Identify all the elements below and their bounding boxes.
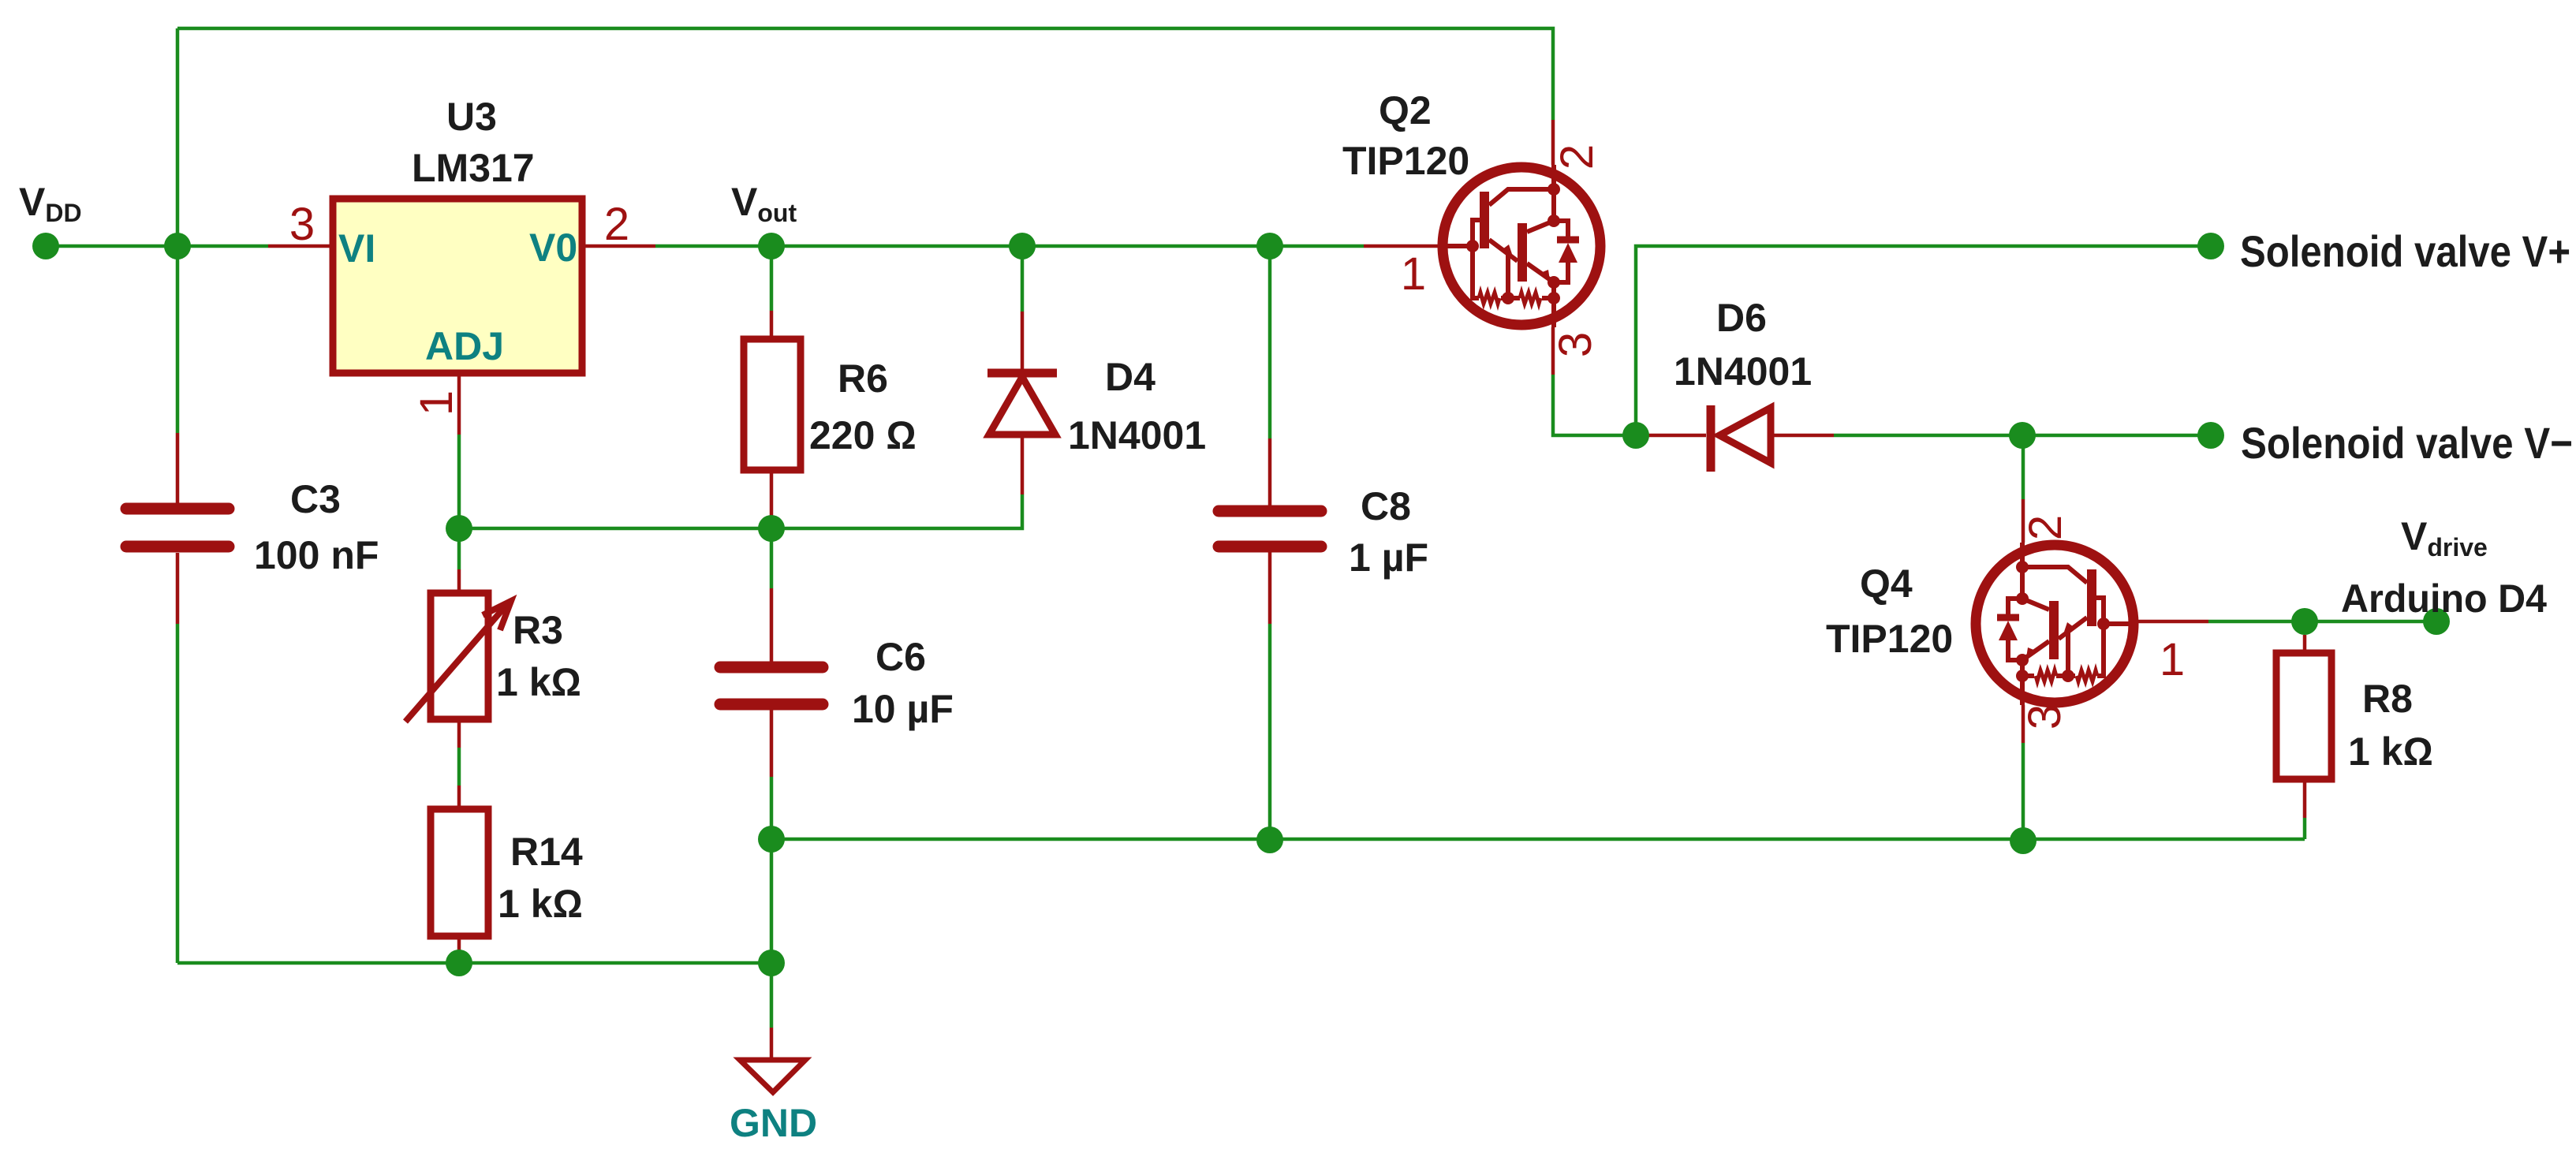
wire node to C6 bbox=[770, 541, 774, 588]
wire ADJ down bbox=[457, 435, 461, 528]
pin R14 top bbox=[457, 785, 461, 809]
wire C6 to ground bus bbox=[770, 777, 774, 1028]
ground symbol GND bbox=[740, 1060, 805, 1092]
wire node to C8 bbox=[1268, 246, 1272, 438]
resistor R14 bbox=[431, 809, 488, 936]
node VDD terminal bbox=[32, 233, 59, 259]
svg-text:1: 1 bbox=[411, 390, 462, 416]
pin Q2 emitter bbox=[1551, 327, 1555, 375]
wire top rail VDD to Q2 collector bbox=[177, 28, 1553, 120]
svg-text:D4: D4 bbox=[1105, 355, 1155, 399]
svg-text:C8: C8 bbox=[1361, 484, 1411, 528]
pin Q4 emitter bbox=[2022, 705, 2025, 743]
R3 arrow bbox=[405, 601, 511, 722]
wire ADJ node horizontal to D4 bottom bbox=[459, 494, 1022, 528]
wire bottom rail bbox=[177, 961, 771, 965]
svg-text:TIP120: TIP120 bbox=[1342, 139, 1469, 183]
svg-text:Vout: Vout bbox=[731, 180, 797, 227]
node C8 top bbox=[1256, 233, 1283, 259]
svg-text:C6: C6 bbox=[875, 635, 926, 679]
wire VDD to U3 VI bbox=[58, 244, 268, 248]
svg-text:Vdrive: Vdrive bbox=[2401, 514, 2488, 562]
wire U3 V0 to Q2 base rail bbox=[655, 244, 1364, 248]
pin C3 top bbox=[176, 433, 180, 503]
svg-text:2: 2 bbox=[1551, 144, 1603, 170]
svg-text:2: 2 bbox=[604, 199, 629, 250]
svg-text:3: 3 bbox=[289, 199, 315, 250]
svg-text:GND: GND bbox=[730, 1101, 817, 1145]
node left vertical / main rail bbox=[164, 233, 191, 259]
wire Q2 emitter to V- node bbox=[1553, 375, 1625, 435]
svg-text:1N4001: 1N4001 bbox=[1068, 413, 1206, 457]
svg-text:3: 3 bbox=[2019, 704, 2070, 729]
wire Q4 emitter down bbox=[2022, 743, 2025, 841]
pin C3 bottom bbox=[176, 553, 180, 624]
svg-text:Arduino D4: Arduino D4 bbox=[2341, 576, 2547, 621]
svg-text:1 µF: 1 µF bbox=[1349, 535, 1428, 580]
node C8 bottom bbox=[1256, 827, 1283, 853]
svg-text:1: 1 bbox=[2160, 634, 2185, 685]
svg-text:Solenoid valve V−: Solenoid valve V− bbox=[2241, 418, 2573, 468]
svg-text:R3: R3 bbox=[513, 608, 563, 652]
node D4 top bbox=[1009, 233, 1036, 259]
node GND junction bbox=[758, 950, 785, 976]
node solenoid V+ terminal bbox=[2197, 233, 2224, 259]
svg-text:220 Ω: 220 Ω bbox=[809, 413, 917, 457]
node Vout bbox=[758, 233, 785, 259]
pin R3 bottom bbox=[457, 719, 461, 748]
pin R8 bottom bbox=[2303, 779, 2307, 818]
wire R8 bottom corner bbox=[2303, 818, 2307, 839]
svg-text:1 kΩ: 1 kΩ bbox=[496, 660, 581, 704]
pin R8 top bbox=[2303, 635, 2307, 653]
wire Q4 base to Arduino D4 bbox=[2208, 620, 2436, 624]
wire D6 anode to solenoid V- bbox=[1834, 434, 2211, 438]
transistor Q4 TIP120 bbox=[1976, 543, 2136, 705]
resistor R8 bbox=[2276, 653, 2331, 779]
wire Vout to R6 bbox=[770, 246, 774, 311]
pin GND stub bbox=[770, 1028, 774, 1060]
wire R3 to R14 bbox=[457, 748, 461, 785]
wire V- node down to Q4 collector bbox=[2022, 435, 2025, 499]
pin Q4 collector bbox=[2022, 499, 2025, 543]
wire left vertical upper bbox=[176, 28, 180, 433]
wire V- node up to V+ rail bbox=[1636, 246, 2211, 435]
pin U3 V0 (2) bbox=[585, 244, 655, 248]
svg-text:U3: U3 bbox=[446, 95, 497, 139]
op-amp U3 LM317 regulator box bbox=[333, 199, 582, 373]
diode D4 bbox=[987, 373, 1057, 435]
svg-text:TIP120: TIP120 bbox=[1826, 617, 1953, 661]
pin U3 VI (3) bbox=[268, 244, 330, 248]
svg-text:VDD: VDD bbox=[19, 180, 82, 227]
node solenoid V- terminal bbox=[2197, 422, 2224, 449]
wire left vertical lower bbox=[176, 624, 180, 963]
pin C8 top bbox=[1268, 438, 1272, 506]
node Q4 emitter bbox=[2010, 827, 2037, 854]
pin D4 cathode bbox=[1021, 312, 1025, 369]
svg-text:Q4: Q4 bbox=[1860, 562, 1913, 606]
transistor Q2 TIP120 bbox=[1440, 165, 1600, 327]
pin Q2 collector bbox=[1551, 120, 1555, 165]
resistor R6 bbox=[744, 339, 801, 470]
svg-text:100 nF: 100 nF bbox=[254, 533, 379, 577]
capacitor C8 bbox=[1219, 511, 1321, 547]
svg-text:Q2: Q2 bbox=[1379, 88, 1432, 132]
pin D6 cathode lead bbox=[1648, 434, 1706, 438]
node R8 top bbox=[2291, 608, 2318, 635]
pin R6 bottom bbox=[770, 470, 774, 517]
pin Q2 base bbox=[1364, 244, 1440, 248]
svg-text:3: 3 bbox=[1550, 332, 1601, 357]
svg-text:V0: V0 bbox=[529, 226, 577, 270]
svg-text:1 kΩ: 1 kΩ bbox=[498, 882, 583, 926]
svg-text:1 kΩ: 1 kΩ bbox=[2348, 729, 2433, 774]
svg-text:D6: D6 bbox=[1716, 296, 1767, 340]
resistor R3 (variable) bbox=[431, 593, 488, 719]
capacitor C3 bbox=[126, 509, 229, 547]
svg-text:LM317: LM317 bbox=[412, 146, 535, 190]
diode D6 bbox=[1711, 405, 1771, 472]
wire node to D4 bbox=[1021, 246, 1025, 312]
svg-text:R8: R8 bbox=[2362, 677, 2413, 721]
svg-text:1: 1 bbox=[1401, 248, 1426, 300]
wire ground bus horizontal bbox=[771, 838, 2305, 841]
svg-text:Solenoid valve V+: Solenoid valve V+ bbox=[2240, 226, 2570, 276]
pin R6 top bbox=[770, 311, 774, 339]
pin C8 bottom bbox=[1268, 552, 1272, 624]
svg-text:ADJ: ADJ bbox=[425, 324, 504, 368]
capacitor C6 bbox=[720, 667, 823, 704]
node ADJ bbox=[446, 515, 472, 542]
pin R3 top bbox=[457, 569, 461, 593]
svg-text:2: 2 bbox=[2020, 515, 2071, 540]
node D6 anode / Q4 collector bbox=[2009, 422, 2036, 449]
svg-text:10 µF: 10 µF bbox=[852, 687, 954, 731]
node R6 bottom bbox=[758, 515, 785, 542]
node C6 bottom bbox=[758, 826, 785, 853]
svg-text:C3: C3 bbox=[290, 477, 341, 521]
node Q2 emitter / D6 bbox=[1622, 422, 1649, 449]
pin Q4 base bbox=[2136, 620, 2208, 624]
wire C8 bottom to ground bus bbox=[1268, 624, 1272, 840]
wire ADJ node to R3 bbox=[457, 541, 461, 569]
node R14 bottom bbox=[446, 950, 472, 976]
node Arduino D4 terminal bbox=[2423, 608, 2450, 635]
pin R14 bottom bbox=[457, 936, 461, 963]
pin D4 anode bbox=[1021, 438, 1025, 494]
svg-text:R14: R14 bbox=[510, 830, 583, 874]
pin U3 ADJ (1) bbox=[457, 376, 461, 435]
svg-text:R6: R6 bbox=[838, 356, 888, 401]
svg-text:VI: VI bbox=[338, 226, 375, 271]
pin C6 bottom bbox=[770, 710, 774, 777]
pin C6 top bbox=[770, 588, 774, 662]
svg-text:1N4001: 1N4001 bbox=[1674, 349, 1812, 394]
pin D6 anode lead bbox=[1771, 434, 1834, 438]
